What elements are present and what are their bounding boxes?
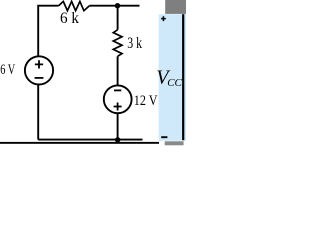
voltage source V1 [25,56,53,84]
wire: from V1 + terminal up and right to R1 left lead [38,6,58,56]
node B junction dot [115,137,120,142]
wire: R2 bottom lead to V2 top terminal [117,56,119,85]
resistor R2 [113,30,122,57]
svg-text:3 k: 3 k [127,35,142,52]
resistor R1 [59,1,90,10]
wire: V2 bottom terminal down to node B [117,113,119,139]
svg-text:6 V: 6 V [0,62,15,78]
net Vcc plus polarity mark [161,16,166,21]
V1 minus sign [35,77,44,79]
wire: V1 - terminal down to bottom net [37,85,39,140]
V2 plus sign [114,103,122,111]
voltage source V2 [104,85,132,113]
svg-text:6 k: 6 k [60,10,79,27]
V2 minus sign [114,89,121,91]
wire: node A down to R2 top lead [117,6,119,30]
V1 plus sign [35,60,43,68]
svg-text:12 V: 12 V [134,93,158,109]
net Vcc minus polarity mark [161,136,167,138]
wire: R1 right lead to node A [89,5,139,7]
wire: bottom net from V1 to node B [38,139,142,141]
node A junction dot [115,3,120,8]
